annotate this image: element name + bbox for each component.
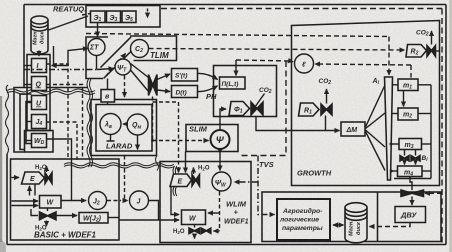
svg-text:Φ1: Φ1	[234, 107, 243, 115]
valve at E1	[45, 173, 52, 184]
wire J2 to J with junction	[107, 200, 121, 202]
wire fan dM to bar 2	[366, 113, 386, 129]
svg-text:H2O: H2O	[173, 229, 185, 235]
nested bus C-shape 3	[26, 102, 32, 144]
box Phi1 (bullet)	[229, 102, 250, 116]
svg-text:m4: m4	[404, 170, 413, 178]
circle J	[130, 191, 149, 210]
wire dashed m1 to circle l	[315, 64, 411, 65]
box W1 soil water	[40, 196, 62, 209]
wire J to W2	[149, 201, 159, 221]
valve PsiT-to-S/D (vertical)	[149, 75, 158, 96]
SLIM box	[186, 125, 238, 152]
svg-text:диск: диск	[356, 221, 362, 235]
box m1	[398, 79, 418, 91]
box v (в)	[101, 90, 115, 103]
svg-text:+: +	[234, 208, 239, 217]
svg-text:D(t): D(t)	[176, 90, 187, 97]
circle Psi (SLIM)	[211, 130, 230, 149]
valve above DVU	[401, 190, 424, 197]
wire dashed valve down to Psi SLIM	[152, 97, 154, 141]
valve under W1	[40, 212, 57, 220]
column box J4	[32, 115, 47, 129]
wire m2 right to bus	[418, 113, 431, 115]
circle J2	[89, 192, 107, 210]
wire E2 valve up H2O arrow	[193, 168, 195, 175]
wire box v down	[107, 79, 109, 105]
svg-text:ΔМ: ΔМ	[346, 127, 358, 134]
wire D(t) to P(L,t)	[198, 86, 218, 92]
wavy region line B vertical	[87, 79, 90, 167]
outer border left lower	[6, 154, 8, 245]
wire PsiT to valve lower	[131, 70, 149, 92]
wire dashed J4 right and down	[47, 122, 78, 160]
svg-text:SLIM: SLIM	[189, 125, 208, 134]
svg-text:Ψ: Ψ	[216, 135, 225, 146]
wire R1 valve up to CO2	[326, 89, 328, 104]
svg-text:WD: WD	[34, 138, 45, 146]
outer border top	[24, 4, 446, 6]
svg-text:параметры: параметры	[282, 225, 323, 232]
wire bar to m2	[393, 113, 399, 115]
wire CO2 diagonal to Phi1 valve	[253, 94, 265, 111]
circle Q-m (LARAD)	[127, 114, 148, 135]
wire long feed to W2	[119, 219, 179, 221]
wire dashed valve elbow right	[153, 101, 179, 103]
svg-text:Ai: Ai	[372, 78, 380, 86]
box E3 (Э3)	[107, 11, 121, 23]
wire R2 valve up to CO2	[431, 31, 433, 45]
wire R1 valve down to assimilation line	[325, 116, 327, 131]
inner dashed border top	[161, 8, 442, 10]
wire W(J2) to basic edge	[108, 217, 119, 219]
WLIM block box	[160, 162, 251, 243]
svg-text:ΣТ: ΣТ	[89, 45, 99, 52]
svg-text:П(L,t): П(L,t)	[222, 81, 239, 88]
box Agrohydro parameters	[277, 199, 330, 240]
LARAD inner box	[96, 105, 152, 152]
svg-text:W(J2): W(J2)	[83, 216, 102, 224]
TLIM box (right part with diagonal cut)	[130, 36, 177, 61]
wire dashed drop into ETA enclosure	[147, 9, 149, 18]
wire valve to S'(t)	[157, 74, 170, 80]
svg-text:m2: m2	[403, 112, 412, 120]
wire column stub J4	[27, 121, 32, 123]
svg-text:CO2: CO2	[416, 30, 429, 38]
wire column stub I	[24, 65, 32, 67]
wire SLIM to E2	[185, 152, 187, 173]
svg-text:LARAD: LARAD	[106, 142, 133, 151]
svg-text:BASIC + WDEF1: BASIC + WDEF1	[34, 231, 97, 240]
valve at Phi1	[251, 102, 263, 115]
ETA input boxes enclosure	[86, 6, 160, 28]
wire bar to m3	[392, 143, 399, 145]
wire column stub WD	[25, 140, 32, 142]
wire dash-dot into PsiW	[235, 181, 259, 183]
outer border left upper	[23, 5, 25, 89]
svg-text:H2O: H2O	[198, 166, 210, 172]
column box Q	[32, 77, 47, 91]
svg-text:WDEF1: WDEF1	[224, 219, 249, 226]
box E5 (Э5)	[122, 11, 136, 23]
bus vertical right	[430, 85, 432, 179]
cylinder disk store top-left	[31, 20, 48, 54]
valve at R1	[321, 104, 332, 115]
wire DVU to cylinder dashed	[370, 223, 411, 227]
scan shadow right edge	[449, 0, 452, 252]
svg-text:TLIM: TLIM	[150, 51, 169, 60]
svg-text:Q: Q	[36, 82, 42, 89]
svg-text:E: E	[178, 179, 183, 186]
box E2 evaporation (bullet)	[170, 174, 192, 187]
circle l (GROWTH)	[295, 54, 314, 73]
box P(L,t)	[220, 77, 246, 89]
wire m4 right to bus	[422, 170, 431, 172]
svg-text:E: E	[30, 176, 35, 183]
wire Qm to lambda arrow	[123, 123, 127, 125]
wire dashed branch down to E2	[178, 102, 180, 167]
wire W1 to J2 arrow	[61, 200, 86, 202]
box DVU (ДВУ)	[395, 207, 426, 223]
diagonal cut line 2	[104, 47, 137, 79]
svg-text:Э3: Э3	[110, 15, 118, 23]
svg-text:Магн.: Магн.	[349, 220, 355, 236]
bottom-right enclosure divider	[377, 192, 379, 242]
column frame tall	[27, 55, 50, 131]
wire m4 down to valve	[410, 177, 412, 191]
circle PsiT	[115, 59, 131, 75]
valves Bi between m3 m4 (pair)	[400, 156, 409, 162]
wire column stub U	[27, 102, 32, 104]
wire dashed I down left region	[47, 64, 69, 158]
LARAD outer box	[91, 100, 157, 156]
svg-text:R1: R1	[304, 108, 312, 116]
wire valve1 down H2O arrow	[46, 221, 48, 227]
junction dot Psi bottom	[218, 149, 222, 153]
wire R2 valve to growth edge	[436, 50, 440, 52]
wire into W1 upper	[12, 200, 39, 202]
column box WD	[32, 134, 47, 148]
wire dashed C2 to R2	[149, 49, 405, 51]
svg-text:J2: J2	[93, 199, 100, 207]
svg-text:ДВУ: ДВУ	[400, 211, 417, 220]
wire m1 to m2 arrow	[403, 91, 405, 107]
bus bottom wrap	[394, 178, 431, 180]
wire column stub Q	[24, 84, 32, 86]
box m4	[398, 166, 423, 177]
wire into W1 lower	[12, 205, 39, 207]
svg-text:m1: m1	[403, 83, 412, 91]
wire staircase into sumT	[54, 46, 89, 66]
wire m3 to Bi valves stubs	[405, 150, 416, 156]
circle sumT	[88, 39, 105, 56]
inner dashed border right	[441, 9, 443, 243]
box S'(t)	[172, 69, 198, 82]
wavy region line D vertical	[173, 166, 176, 196]
box m2	[398, 108, 418, 120]
svg-text:S'(t): S'(t)	[175, 73, 187, 80]
wire m1 right to bus	[418, 84, 431, 86]
wire valve1 to W(J2)	[56, 215, 77, 217]
circle PsiW	[212, 172, 231, 191]
wire long dashed to Ai bar	[86, 34, 389, 37]
wire W2 to valves stem	[194, 225, 196, 228]
box W2	[182, 210, 206, 225]
wire dashed arrow into W2 valve right	[214, 230, 220, 232]
svg-text:РН: РН	[206, 92, 217, 101]
svg-text:GROWTH: GROWTH	[297, 169, 332, 178]
GROWTH box	[292, 21, 440, 186]
svg-text:Магн.: Магн.	[33, 29, 39, 45]
column box I	[32, 59, 47, 73]
wire assimilation line into dM	[256, 117, 340, 131]
wire PsiT to valve upper	[131, 64, 149, 78]
box R1 (bullet)	[299, 103, 320, 116]
cylinder disk bottom-right	[345, 208, 367, 243]
wire valve1 left loop	[31, 209, 38, 216]
column box U	[32, 96, 47, 110]
svg-text:m3: m3	[405, 142, 414, 150]
wire dash-dot down to agro box	[258, 156, 275, 215]
wire bar to m4	[392, 170, 398, 172]
scan shadow bottom-left corner	[0, 238, 6, 252]
wire dashed TVS boundary	[239, 61, 286, 156]
box D(t)	[172, 86, 198, 98]
nested bus C-shape 2	[20, 94, 32, 150]
wire valve down to DVU	[411, 197, 413, 206]
svg-text:Агрогидро-: Агрогидро-	[282, 207, 323, 215]
svg-text:Э1: Э1	[94, 15, 102, 23]
valve at E2	[192, 175, 200, 187]
wire drop into P(L,t)	[235, 60, 237, 76]
svg-text:H2O: H2O	[35, 165, 47, 171]
box m3	[399, 139, 422, 150]
bottom-right enclosure box	[262, 192, 441, 242]
valves under W2	[189, 228, 200, 234]
BASIC block box	[11, 159, 120, 240]
dashed diagonal into C2	[106, 54, 126, 77]
wire Psi up to Phi1	[220, 109, 226, 130]
wire arrow into column frame	[52, 65, 56, 67]
svg-text:R2: R2	[411, 49, 419, 57]
wire dashed PsiT down through LARAD to junction	[124, 76, 126, 98]
box R2 (bullet)	[406, 45, 427, 58]
Ai accumulation bar	[385, 77, 393, 180]
wire W1 up to E1 arrow	[29, 186, 31, 196]
wire sumT down stub	[96, 56, 98, 70]
box E1 evaporation (bullet)	[22, 172, 45, 184]
wire Qm down stub	[137, 135, 139, 150]
svg-text:логические: логические	[279, 217, 319, 224]
svg-text:ℓ: ℓ	[301, 62, 306, 69]
circle lambda-v (LARAD)	[100, 114, 121, 135]
nested bus C-shape 1	[14, 88, 88, 153]
wire dashed into circle l	[236, 60, 290, 61]
wire fan dM to bar 3	[366, 130, 386, 147]
wire valve to D(t)	[157, 90, 170, 92]
wire lambda down stub	[107, 135, 115, 142]
wire into E1 arrow	[12, 177, 20, 179]
PH box	[214, 66, 277, 117]
wire dash-dot bus to PsiT	[24, 69, 97, 71]
wire WD to J2 long	[47, 139, 72, 201]
svg-text:CO2: CO2	[259, 87, 272, 95]
wire Bi valves to m4 arrows	[404, 161, 406, 165]
wire dashed Q down left region	[47, 85, 83, 159]
wire S'(t) to P(L,t)	[198, 73, 218, 79]
wire PsiW down dashed	[219, 192, 221, 232]
wire E1 down to W1	[34, 184, 36, 196]
wire E2 bottom to W2	[171, 187, 179, 215]
outer border right	[445, 5, 447, 245]
wire cylinder to column arrow	[38, 51, 40, 57]
valve at R2	[427, 46, 436, 57]
wire E1 valve up H2O arrow	[46, 166, 48, 172]
wire bar to m1	[393, 84, 399, 86]
svg-text:J4: J4	[36, 119, 43, 127]
svg-text:REATUQ.: REATUQ.	[53, 5, 86, 14]
wavy stub under LARAD	[156, 156, 159, 171]
svg-text:TVS: TVS	[259, 160, 274, 169]
wire dashes REATUQ to E1	[82, 14, 90, 16]
outer border left wavy part	[6, 85, 9, 154]
svg-text:CO2: CO2	[319, 78, 332, 86]
wire W1 to valve stem	[47, 208, 49, 211]
circle C2	[131, 40, 149, 58]
box W(J2)	[79, 213, 108, 224]
sigma-psi box (left part with diagonal cut)	[86, 37, 108, 79]
wire W2 valve down arrow	[194, 234, 196, 239]
box dM (ΔM)	[341, 122, 365, 136]
wire Psi down to PsiW	[219, 149, 221, 171]
wire dashed arrow into W2 right edge	[208, 212, 220, 214]
wire m3 right to bus	[422, 143, 432, 145]
wavy region line A horizontal	[7, 89, 95, 92]
wire fan dM to bar 4	[366, 132, 386, 171]
WD frame	[25, 131, 54, 153]
outer border bottom	[7, 244, 446, 246]
scan shadow left edge	[0, 96, 2, 242]
box E1 (Э1)	[91, 11, 106, 23]
wire dashed border into DVU valve	[425, 192, 442, 194]
svg-text:диск: диск	[40, 31, 46, 44]
wire cylinder to ETA boxes diagonal	[49, 16, 89, 30]
wire fan dM to bar 1	[366, 85, 386, 127]
wavy region line C horizontal	[64, 165, 174, 168]
diagonal cut line 1	[101, 37, 132, 68]
wire agro box to cylinder both arrows	[333, 224, 338, 226]
svg-text:Вi: Вi	[422, 155, 429, 163]
svg-text:С2: С2	[135, 46, 143, 54]
svg-text:Э5: Э5	[125, 15, 133, 23]
wire E1-box to sumT arrow	[97, 23, 99, 37]
